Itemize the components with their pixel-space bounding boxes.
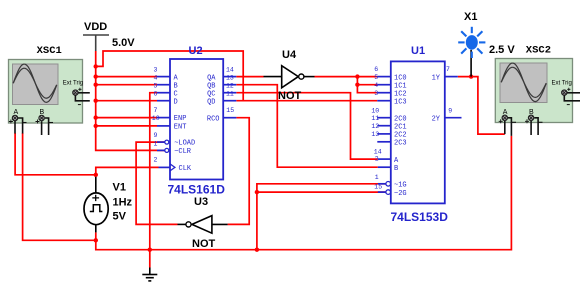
- svg-text:U1: U1: [411, 45, 425, 57]
- svg-text:12: 12: [371, 123, 379, 130]
- svg-text:QB: QB: [207, 82, 215, 90]
- XSC1 terminal B: [39, 115, 44, 120]
- wire branch to U1 pin 1C2: [357, 77, 377, 93]
- svg-text:13: 13: [226, 75, 234, 82]
- wire QD to 1C3: [236, 100, 377, 102]
- U2 CLK edge marker: [170, 164, 175, 171]
- svg-text:1C1: 1C1: [394, 82, 407, 90]
- XSC1 terminal A: [12, 115, 17, 120]
- svg-text:2C2: 2C2: [394, 132, 407, 140]
- svg-text:NOT: NOT: [278, 90, 302, 102]
- svg-text:74LS161D: 74LS161D: [168, 183, 226, 197]
- svg-text:1: 1: [375, 174, 379, 181]
- U1 pin stubs: [377, 77, 461, 193]
- svg-text:14: 14: [226, 67, 234, 74]
- svg-text:QD: QD: [207, 98, 215, 106]
- U2 pin stubs: [157, 77, 236, 168]
- wire U1 ~1G to ground bus: [257, 184, 386, 250]
- svg-text:6: 6: [154, 91, 158, 98]
- svg-text:ENT: ENT: [174, 123, 187, 131]
- oscilloscope XSC2: [495, 45, 580, 136]
- multiplexer U1 74LS153D: [371, 45, 461, 224]
- wire U1 ~2G to ground bus: [257, 191, 386, 193]
- U3 output lead: [178, 223, 186, 225]
- wire VDD top branch to QD column: [96, 51, 244, 101]
- U2 ~LOAD bubble: [165, 140, 169, 144]
- svg-text:10: 10: [152, 115, 160, 122]
- svg-text:ENP: ENP: [174, 115, 187, 123]
- X1 bulb: [466, 35, 478, 50]
- svg-text:2C1: 2C1: [394, 123, 407, 131]
- XSC2 terminal A: [502, 115, 507, 120]
- U3 bubble: [186, 222, 191, 227]
- wire C-pin to ground: [150, 93, 157, 250]
- junction ~2G branch: [255, 190, 259, 194]
- svg-text:CLK: CLK: [179, 165, 192, 173]
- svg-text:3: 3: [374, 90, 378, 97]
- wire CLK: [96, 167, 159, 174]
- clock source V1: [84, 177, 133, 233]
- svg-text:~CLR: ~CLR: [174, 148, 192, 156]
- wire XSC1 A- to V1-: [23, 133, 96, 240]
- junction node V1- XSC1-A-: [94, 238, 98, 242]
- V1 plus terminal stub: [95, 177, 97, 193]
- junction U4 out 1C0: [355, 74, 359, 78]
- wire VDD to U2 pin ENT: [96, 125, 157, 127]
- svg-text:1C3: 1C3: [394, 98, 407, 106]
- XSC2 terminal B: [528, 115, 533, 120]
- svg-text:5: 5: [374, 74, 378, 81]
- U4 input lead: [264, 76, 282, 78]
- svg-text:3: 3: [154, 67, 158, 74]
- XSC2 body: [495, 59, 572, 123]
- svg-text:2Y: 2Y: [432, 115, 441, 123]
- wire VDD vertical to ~CLR pin: [96, 51, 165, 150]
- svg-text:2: 2: [375, 156, 379, 163]
- junction ground bus at ground symbol: [148, 248, 152, 252]
- U2 ~CLR bubble: [165, 148, 169, 152]
- svg-text:Ext Trig: Ext Trig: [552, 81, 572, 87]
- XSC2 Ext Trig terminal: [562, 90, 567, 95]
- svg-text:6: 6: [374, 66, 378, 73]
- inverter U3 NOT gate mirrored: [178, 196, 228, 250]
- svg-text:1Y: 1Y: [432, 74, 441, 82]
- svg-text:B: B: [394, 165, 398, 173]
- X1 rays: [458, 27, 485, 58]
- svg-text:1: 1: [154, 141, 158, 148]
- wire U4 output to U1 pin 1C0: [315, 76, 378, 78]
- svg-text:15: 15: [226, 107, 234, 114]
- junction node CLK V1+ XSC1-A: [94, 173, 98, 177]
- wire LOAD to U3 output: [136, 142, 177, 224]
- svg-text:XSC1: XSC1: [37, 45, 62, 57]
- svg-text:9: 9: [154, 132, 158, 139]
- svg-text:1Hz: 1Hz: [113, 197, 133, 209]
- U1 ~2G bubble: [386, 190, 391, 195]
- XSC2 screen: [500, 63, 547, 103]
- svg-text:D: D: [174, 98, 178, 106]
- junction VDD pin D: [94, 99, 98, 103]
- wire 1Y to X1 and XSC2 A: [458, 77, 505, 135]
- junction VDD pin B: [94, 83, 98, 87]
- inverter U4 NOT gate: [264, 49, 315, 102]
- wire ground stem: [149, 250, 151, 268]
- svg-text:V1: V1: [113, 182, 126, 194]
- junction ground bus at 1G2G column: [255, 248, 259, 252]
- svg-text:2: 2: [154, 157, 158, 164]
- svg-text:74LS153D: 74LS153D: [391, 210, 449, 224]
- svg-text:U3: U3: [194, 196, 208, 208]
- svg-text:NOT: NOT: [192, 238, 216, 250]
- svg-text:10: 10: [371, 107, 379, 114]
- svg-text:5.0V: 5.0V: [112, 37, 135, 49]
- XSC1 screen: [13, 64, 59, 105]
- svg-text:C: C: [174, 90, 178, 98]
- svg-text:4: 4: [374, 82, 378, 89]
- U1 ~1G bubble: [386, 182, 391, 187]
- U2 body: [170, 59, 223, 180]
- svg-text:7: 7: [446, 66, 450, 73]
- wire VDD to U2 pin D: [96, 100, 157, 102]
- junction X1 stem on 1Y wire: [469, 74, 473, 78]
- svg-text:5: 5: [154, 83, 158, 90]
- svg-text:7: 7: [154, 107, 158, 114]
- U3 triangle: [192, 216, 212, 234]
- wire RCO to U3 input: [228, 118, 250, 225]
- junction VDD pin ENT: [94, 124, 98, 128]
- power VDD symbol: [83, 21, 135, 51]
- svg-text:13: 13: [371, 131, 379, 138]
- U4 bubble: [299, 74, 304, 79]
- svg-text:2C0: 2C0: [394, 115, 407, 123]
- ground symbol: [142, 268, 157, 281]
- junction VDD pin ENP: [94, 115, 98, 119]
- U4 triangle: [282, 66, 299, 88]
- wire VDD to U2 pin A: [96, 76, 157, 78]
- wire QA to U4 input: [236, 76, 263, 78]
- svg-text:VDD: VDD: [84, 21, 107, 33]
- svg-text:XSC2: XSC2: [526, 45, 551, 57]
- XSC1 body: [9, 60, 83, 124]
- svg-text:4: 4: [154, 75, 158, 82]
- wire QC to U1 A: [236, 93, 377, 159]
- junction VDD top branch: [94, 64, 98, 68]
- svg-text:11: 11: [371, 115, 379, 122]
- X1 stem: [470, 50, 472, 77]
- svg-text:1C2: 1C2: [394, 90, 407, 98]
- junction VDD pin A: [94, 74, 98, 78]
- svg-text:9: 9: [448, 107, 452, 114]
- svg-text:U4: U4: [282, 49, 297, 61]
- svg-text:2.5 V: 2.5 V: [489, 44, 515, 56]
- wire V1- to ground bus, bus to XSC2 A-: [96, 136, 512, 250]
- XSC1 Ext Trig terminal: [73, 90, 78, 95]
- svg-text:X1: X1: [464, 11, 477, 23]
- V1 plus sign: [92, 195, 99, 201]
- svg-text:QC: QC: [207, 90, 215, 98]
- wire VDD net vertical: [96, 51, 244, 150]
- svg-text:U2: U2: [189, 45, 203, 57]
- V1 square wave glyph: [90, 205, 103, 212]
- wire VDD to U2 pin B: [96, 84, 157, 86]
- U1 body: [391, 61, 445, 203]
- svg-text:RCO: RCO: [207, 115, 220, 123]
- svg-text:11: 11: [226, 91, 234, 98]
- svg-text:2C3: 2C3: [394, 140, 407, 148]
- svg-text:5V: 5V: [113, 211, 127, 223]
- oscilloscope XSC1: [9, 45, 90, 135]
- svg-text:~1G: ~1G: [394, 182, 407, 190]
- probe X1 lamp: [458, 11, 515, 77]
- V1 minus terminal stub: [95, 225, 97, 233]
- svg-text:QA: QA: [207, 74, 216, 82]
- counter U2 74LS161D: [152, 45, 237, 197]
- svg-text:~2G: ~2G: [394, 190, 407, 198]
- V1 body circle: [84, 193, 108, 225]
- svg-text:B: B: [174, 82, 178, 90]
- wire XSC1 A+ to V1+: [15, 133, 96, 175]
- svg-text:15: 15: [374, 183, 382, 190]
- svg-text:12: 12: [226, 83, 234, 90]
- wire VDD to U2 pin ENP: [96, 117, 157, 119]
- svg-text:~LOAD: ~LOAD: [174, 140, 195, 148]
- svg-text:Ext Trig: Ext Trig: [63, 81, 83, 87]
- svg-text:1C0: 1C0: [394, 74, 407, 82]
- U4 output lead: [304, 76, 314, 78]
- junction U4 out 1C1: [355, 83, 359, 87]
- wire branch to U1 pin 1C1: [357, 84, 377, 86]
- U3 input lead: [212, 223, 228, 225]
- wire QB to U1 B: [236, 85, 377, 168]
